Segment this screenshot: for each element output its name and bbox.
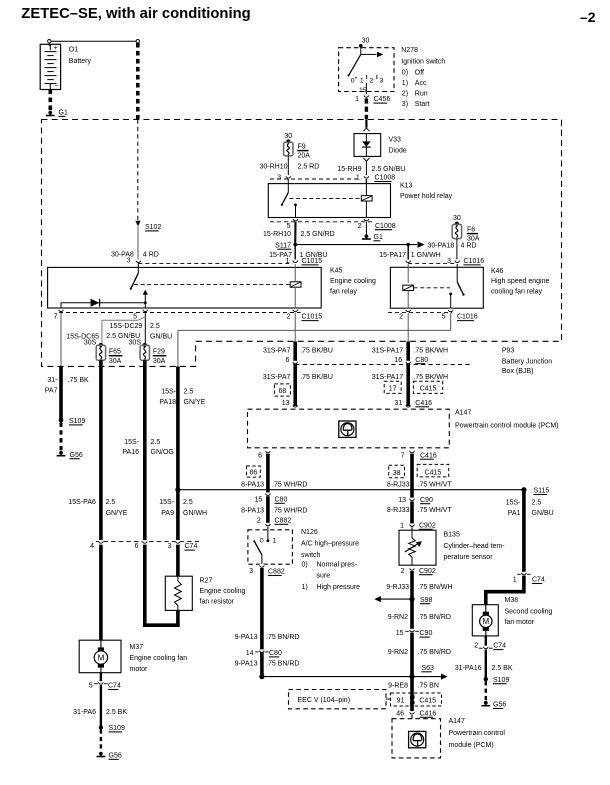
svg-text:Powertrain control module (PCM: Powertrain control module (PCM): [455, 423, 558, 430]
svg-text:.75 BK/WH: .75 BK/WH: [413, 374, 448, 381]
svg-text:K13: K13: [400, 183, 413, 190]
svg-text:13: 13: [282, 400, 290, 407]
svg-text:4: 4: [90, 543, 94, 550]
svg-text:C416: C416: [420, 452, 437, 459]
svg-text:3: 3: [249, 568, 253, 575]
svg-text:C902: C902: [419, 568, 436, 575]
svg-text:20A: 20A: [298, 152, 311, 159]
svg-text:C456: C456: [374, 96, 391, 103]
svg-text:9-PA13: 9-PA13: [235, 634, 258, 641]
svg-text:1: 1: [400, 522, 404, 529]
svg-text:C415: C415: [420, 386, 437, 393]
svg-text:S102: S102: [145, 224, 161, 231]
svg-text:1: 1: [286, 258, 290, 265]
svg-text:30A: 30A: [153, 358, 166, 365]
svg-text:2.5: 2.5: [106, 499, 116, 506]
svg-text:G56: G56: [493, 702, 506, 709]
svg-text:M38: M38: [505, 597, 519, 604]
svg-text:5: 5: [442, 314, 446, 321]
svg-text:A/C high–pressure: A/C high–pressure: [301, 541, 359, 548]
svg-text:fan motor: fan motor: [505, 619, 535, 626]
svg-text:15S-: 15S-: [506, 499, 521, 506]
svg-text:Battery Junction: Battery Junction: [502, 358, 552, 365]
svg-text:9-RN2: 9-RN2: [388, 614, 408, 621]
svg-text:0: 0: [260, 537, 264, 544]
svg-text:GN/WH: GN/WH: [183, 510, 207, 517]
svg-text:sure: sure: [317, 572, 331, 579]
svg-text:15: 15: [359, 87, 367, 94]
svg-text:S109: S109: [493, 677, 509, 684]
svg-text:C74: C74: [493, 643, 506, 650]
svg-text:C416: C416: [415, 400, 432, 407]
svg-text:6: 6: [258, 452, 262, 459]
svg-text:GN/YE: GN/YE: [184, 399, 206, 406]
svg-text:30-RH10: 30-RH10: [259, 163, 287, 170]
svg-text:2: 2: [474, 643, 478, 650]
svg-text:PA7: PA7: [45, 387, 58, 394]
svg-text:C74: C74: [108, 683, 121, 690]
svg-text:15-PA17: 15-PA17: [379, 252, 406, 259]
svg-text:30: 30: [362, 37, 370, 44]
svg-text:.75 BK/BU: .75 BK/BU: [300, 374, 333, 381]
svg-text:5: 5: [133, 314, 137, 321]
svg-text:1): 1): [302, 584, 308, 591]
svg-text:F6: F6: [467, 227, 475, 234]
svg-text:A147: A147: [449, 718, 465, 725]
svg-text:+: +: [54, 45, 58, 52]
svg-text:High speed engine: High speed engine: [491, 278, 549, 285]
svg-text:2.5: 2.5: [151, 439, 161, 446]
svg-text:86: 86: [250, 470, 258, 477]
svg-text:.75 BN/RD: .75 BN/RD: [266, 660, 299, 667]
svg-text:C90: C90: [420, 630, 433, 637]
svg-text:C80: C80: [269, 650, 282, 657]
svg-text:PA9: PA9: [161, 510, 174, 517]
svg-text:2: 2: [287, 314, 291, 321]
svg-text:9-PA13: 9-PA13: [235, 660, 258, 667]
svg-text:3): 3): [402, 101, 408, 108]
svg-text:fan relay: fan relay: [330, 288, 357, 295]
svg-text:PA16: PA16: [122, 449, 139, 456]
svg-text:31S-PA7: 31S-PA7: [263, 374, 291, 381]
svg-text:V33: V33: [389, 137, 402, 144]
svg-text:C1008: C1008: [375, 223, 396, 230]
svg-text:2.5: 2.5: [150, 323, 160, 330]
svg-text:GN/OG: GN/OG: [151, 449, 174, 456]
svg-text:A147: A147: [455, 409, 471, 416]
svg-text:68: 68: [279, 388, 287, 395]
svg-text:2.5 BK: 2.5 BK: [492, 665, 513, 672]
svg-text:.75 BK: .75 BK: [68, 377, 89, 384]
svg-text:46: 46: [396, 710, 404, 717]
svg-text:S115: S115: [534, 488, 550, 495]
svg-text:3: 3: [127, 258, 131, 265]
svg-text:31-PA16: 31-PA16: [455, 665, 482, 672]
svg-text:.75 BN/RD: .75 BN/RD: [418, 614, 451, 621]
svg-text:16: 16: [394, 357, 402, 364]
svg-text:2.5: 2.5: [532, 499, 542, 506]
svg-text:7: 7: [401, 452, 405, 459]
svg-text:31: 31: [395, 400, 403, 407]
svg-text:8-RJ33: 8-RJ33: [387, 482, 410, 489]
svg-text:M37: M37: [130, 644, 144, 651]
svg-text:GN/YE: GN/YE: [106, 510, 128, 517]
svg-text:C415: C415: [419, 697, 436, 704]
svg-text:13: 13: [398, 497, 406, 504]
svg-text:PA18: PA18: [159, 399, 176, 406]
svg-text:6: 6: [285, 357, 289, 364]
svg-text:Acc: Acc: [415, 80, 427, 87]
svg-text:R27: R27: [200, 578, 213, 585]
svg-text:Run: Run: [415, 91, 428, 98]
svg-text:8-RJ33: 8-RJ33: [387, 507, 410, 514]
svg-text:1: 1: [360, 78, 364, 85]
svg-text:C882: C882: [268, 569, 285, 576]
svg-text:30S: 30S: [84, 340, 97, 347]
svg-text:Engine cooling: Engine cooling: [330, 278, 376, 285]
svg-text:1: 1: [356, 175, 360, 182]
svg-text:Ignition switch: Ignition switch: [401, 59, 445, 66]
svg-text:2.5 BK: 2.5 BK: [106, 709, 127, 716]
svg-text:switch: switch: [301, 552, 321, 559]
svg-text:S63: S63: [422, 665, 435, 672]
svg-text:motor: motor: [130, 666, 149, 673]
svg-text:C1008: C1008: [375, 175, 396, 182]
svg-text:P93: P93: [502, 348, 515, 355]
svg-text:.75 BN/RD: .75 BN/RD: [266, 634, 299, 641]
svg-text:15S-: 15S-: [159, 499, 174, 506]
svg-text:G56: G56: [109, 752, 122, 759]
svg-text:8-PA13: 8-PA13: [241, 507, 264, 514]
svg-text:fan resistor: fan resistor: [200, 598, 235, 605]
svg-text:Off: Off: [415, 70, 424, 77]
svg-text:.75 BN/RD: .75 BN/RD: [418, 649, 451, 656]
svg-text:O1: O1: [69, 47, 78, 54]
svg-text:GN/BU: GN/BU: [150, 334, 172, 341]
svg-text:PA1: PA1: [508, 510, 521, 517]
svg-text:perature sensor: perature sensor: [444, 554, 494, 561]
svg-text:15S-: 15S-: [161, 388, 176, 395]
svg-text:31S-PA17: 31S-PA17: [372, 374, 403, 381]
svg-text:cooling fan relay: cooling fan relay: [491, 289, 542, 296]
svg-text:.75 WH/VT: .75 WH/VT: [418, 482, 453, 489]
svg-text:C1016: C1016: [464, 258, 485, 265]
svg-text:−: −: [55, 83, 59, 90]
svg-text:.75 WH/RD: .75 WH/RD: [272, 482, 307, 489]
svg-text:.75 BN: .75 BN: [418, 682, 439, 689]
svg-text:G1: G1: [59, 110, 68, 117]
svg-text:2.5: 2.5: [184, 388, 194, 395]
svg-text:K46: K46: [491, 268, 504, 275]
svg-text:38: 38: [393, 470, 401, 477]
svg-text:2.5: 2.5: [183, 499, 193, 506]
svg-text:31-: 31-: [47, 377, 58, 384]
svg-text:5: 5: [287, 223, 291, 230]
svg-text:B135: B135: [444, 532, 460, 539]
svg-text:30: 30: [284, 133, 292, 140]
svg-text:8-PA13: 8-PA13: [241, 482, 264, 489]
svg-text:.75 BK/BU: .75 BK/BU: [300, 348, 333, 355]
svg-text:ZETEC–SE, with air conditionin: ZETEC–SE, with air conditioning: [21, 6, 250, 22]
svg-text:30A: 30A: [109, 358, 122, 365]
svg-text:G56: G56: [70, 452, 83, 459]
svg-text:Box (BJB): Box (BJB): [502, 368, 534, 375]
svg-text:C74: C74: [532, 577, 545, 584]
svg-text:.75 BN/WH: .75 BN/WH: [418, 584, 453, 591]
svg-text:0): 0): [402, 70, 408, 77]
svg-text:S109: S109: [69, 418, 85, 425]
svg-text:.75 WH/VT: .75 WH/VT: [418, 507, 453, 514]
svg-text:N278: N278: [401, 47, 418, 54]
svg-text:C74: C74: [185, 543, 198, 550]
svg-text:F29: F29: [153, 349, 165, 356]
svg-text:C80: C80: [415, 357, 428, 364]
svg-text:M: M: [482, 617, 489, 626]
svg-text:C80: C80: [275, 496, 288, 503]
svg-text:–2: –2: [580, 9, 596, 25]
svg-text:1: 1: [513, 577, 517, 584]
svg-text:15-RH9: 15-RH9: [337, 166, 361, 173]
svg-text:Cylinder–head tem-: Cylinder–head tem-: [444, 543, 506, 550]
svg-text:EEC V (104–pin): EEC V (104–pin): [298, 697, 351, 704]
svg-text:Start: Start: [415, 101, 430, 108]
svg-text:Normal pres-: Normal pres-: [317, 562, 358, 569]
svg-text:.75 BK/WH: .75 BK/WH: [413, 348, 448, 355]
svg-text:3: 3: [380, 78, 384, 85]
svg-text:7: 7: [54, 314, 58, 321]
svg-text:9-RJ33: 9-RJ33: [386, 584, 409, 591]
svg-text:C1015: C1015: [302, 258, 323, 265]
svg-text:1: 1: [272, 537, 276, 544]
svg-text:30: 30: [453, 215, 461, 222]
svg-text:30S: 30S: [129, 340, 142, 347]
svg-text:3: 3: [168, 543, 172, 550]
svg-text:2.5 GN/RD: 2.5 GN/RD: [301, 231, 335, 238]
svg-text:2: 2: [401, 568, 405, 575]
svg-text:Engine cooling fan: Engine cooling fan: [130, 655, 188, 662]
svg-text:GN/BU: GN/BU: [532, 510, 554, 517]
svg-text:Power hold relay: Power hold relay: [400, 193, 453, 200]
svg-text:C415: C415: [425, 470, 442, 477]
svg-text:2.5 RD: 2.5 RD: [298, 163, 320, 170]
svg-text:14: 14: [246, 650, 254, 657]
svg-text:C902: C902: [419, 522, 436, 529]
svg-text:4 RD: 4 RD: [461, 243, 477, 250]
svg-text:C882: C882: [275, 517, 292, 524]
svg-text:15: 15: [255, 496, 263, 503]
svg-text:2): 2): [402, 91, 408, 98]
svg-text:S98: S98: [420, 597, 433, 604]
svg-text:15S-DC29: 15S-DC29: [110, 323, 143, 330]
svg-text:M: M: [98, 653, 105, 662]
svg-text:31S-PA7: 31S-PA7: [263, 348, 291, 355]
svg-text:S109: S109: [109, 725, 125, 732]
svg-text:1): 1): [402, 80, 408, 87]
svg-text:2.5 GN/BU: 2.5 GN/BU: [372, 166, 406, 173]
svg-text:17: 17: [389, 386, 397, 393]
svg-text:2: 2: [370, 78, 374, 85]
svg-text:Engine cooling: Engine cooling: [200, 588, 246, 595]
svg-text:F65: F65: [109, 349, 121, 356]
svg-text:1 GN/WH: 1 GN/WH: [411, 252, 441, 259]
svg-text:3: 3: [447, 258, 451, 265]
svg-text:15S-: 15S-: [124, 439, 139, 446]
svg-text:0): 0): [302, 562, 308, 569]
svg-text:15S-PA6: 15S-PA6: [68, 499, 96, 506]
svg-text:6: 6: [135, 543, 139, 550]
svg-text:Powertrain control: Powertrain control: [449, 730, 506, 737]
svg-text:C1016: C1016: [457, 314, 478, 321]
svg-text:High pressure: High pressure: [317, 584, 361, 591]
svg-text:2: 2: [358, 223, 362, 230]
svg-text:Diode: Diode: [389, 148, 407, 155]
svg-text:4 RD: 4 RD: [143, 251, 159, 258]
svg-text:9-RN2: 9-RN2: [388, 649, 408, 656]
svg-text:N126: N126: [301, 529, 318, 536]
svg-text:31S-PA17: 31S-PA17: [372, 348, 403, 355]
svg-text:2: 2: [257, 517, 261, 524]
svg-text:module (PCM): module (PCM): [449, 742, 494, 749]
svg-text:30-PA18: 30-PA18: [428, 243, 455, 250]
svg-text:91: 91: [397, 697, 405, 704]
svg-text:Second cooling: Second cooling: [505, 609, 553, 616]
svg-text:9-RE8: 9-RE8: [388, 682, 408, 689]
svg-text:30A: 30A: [467, 235, 480, 242]
svg-text:0: 0: [351, 78, 355, 85]
svg-text:31-PA6: 31-PA6: [73, 709, 96, 716]
svg-text:C416: C416: [420, 710, 437, 717]
svg-text:Battery: Battery: [69, 58, 92, 65]
svg-text:5: 5: [89, 683, 93, 690]
svg-text:C90: C90: [420, 497, 433, 504]
svg-text:3: 3: [277, 175, 281, 182]
svg-text:C1015: C1015: [302, 314, 323, 321]
svg-text:G1: G1: [374, 234, 383, 241]
svg-text:15: 15: [396, 630, 404, 637]
svg-text:K45: K45: [330, 268, 343, 275]
svg-text:S117: S117: [275, 242, 291, 249]
svg-text:15-RH10: 15-RH10: [263, 231, 291, 238]
svg-text:1: 1: [355, 96, 359, 103]
svg-text:2: 2: [399, 314, 403, 321]
svg-text:.75 WH/RD: .75 WH/RD: [272, 507, 307, 514]
svg-text:F9: F9: [298, 144, 306, 151]
